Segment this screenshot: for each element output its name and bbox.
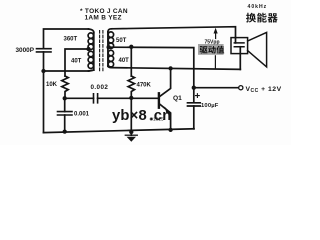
capacitor C4 100uF: [188, 88, 201, 129]
plus sign polarity: [196, 94, 200, 98]
wire tap to resistor: [65, 49, 89, 76]
svg-text:75Vpp: 75Vpp: [205, 40, 220, 46]
wire base node to rail: [130, 98, 132, 132]
wire top right to speaker: [112, 27, 236, 38]
junction rail ground: [129, 130, 133, 134]
capacitor C2 0.001: [58, 98, 73, 131]
svg-text:100µF: 100µF: [201, 103, 219, 109]
svg-text:0.002: 0.002: [91, 84, 109, 91]
wire vcc: [194, 87, 239, 89]
junction collector: [168, 66, 172, 70]
resistor R2 470K: [128, 76, 134, 98]
svg-text:VCC + 12V: VCC + 12V: [246, 86, 282, 94]
wire right tap to vcc column: [109, 47, 194, 87]
wire bottom rail: [44, 129, 195, 133]
wire left rail: [43, 71, 45, 133]
transformer core: [100, 31, 103, 72]
svg-text:0.001: 0.001: [74, 111, 90, 117]
transducer element: [234, 38, 244, 70]
svg-text:40kHz: 40kHz: [248, 4, 268, 10]
ground: [125, 132, 137, 142]
speaker cone: [248, 32, 267, 67]
wire node B to C3: [65, 97, 94, 99]
svg-text:yb×8.cn: yb×8.cn: [112, 108, 171, 124]
wire winding bottom left: [44, 70, 89, 72]
junction C2 to rail: [63, 129, 67, 133]
capacitor C3 0.002: [94, 94, 159, 103]
resistor R1 10K: [62, 76, 68, 98]
tap junction right winding: [106, 45, 110, 49]
svg-text:470K: 470K: [137, 82, 152, 88]
capacitor C 3000P: [37, 49, 52, 71]
transformer T1 right winding 50T/40T: [108, 29, 114, 68]
svg-text:3000P: 3000P: [16, 47, 35, 54]
terminal vcc: [239, 86, 243, 90]
measure arrow 75Vpp: [214, 28, 218, 69]
node A junction: [41, 69, 45, 73]
tap junction left winding: [86, 47, 90, 51]
transformer T1 left winding 360T/40T: [88, 29, 94, 71]
svg-text:40T: 40T: [119, 58, 130, 64]
label 驱动值: [200, 46, 225, 54]
wire 470K top lead: [130, 47, 132, 76]
svg-text:Q1: Q1: [173, 95, 182, 102]
transistor Q1: [159, 68, 171, 129]
svg-text:1AM B YEZ: 1AM B YEZ: [85, 14, 122, 21]
wire top-left: [44, 29, 89, 49]
label 换能器: [246, 13, 278, 23]
junction vcc: [192, 86, 196, 90]
junction base node: [129, 96, 133, 100]
junction 470K top: [129, 45, 133, 49]
node B junction: [63, 96, 67, 100]
svg-text:10K: 10K: [46, 82, 58, 88]
transducer box: [231, 38, 248, 54]
highlight box 驱动值: [198, 44, 224, 55]
svg-text:360T: 360T: [64, 37, 78, 43]
svg-text:50T: 50T: [116, 38, 127, 44]
svg-text:40T: 40T: [71, 58, 82, 64]
wire winding bottom right: [112, 68, 241, 70]
junction emitter rail: [168, 128, 172, 132]
